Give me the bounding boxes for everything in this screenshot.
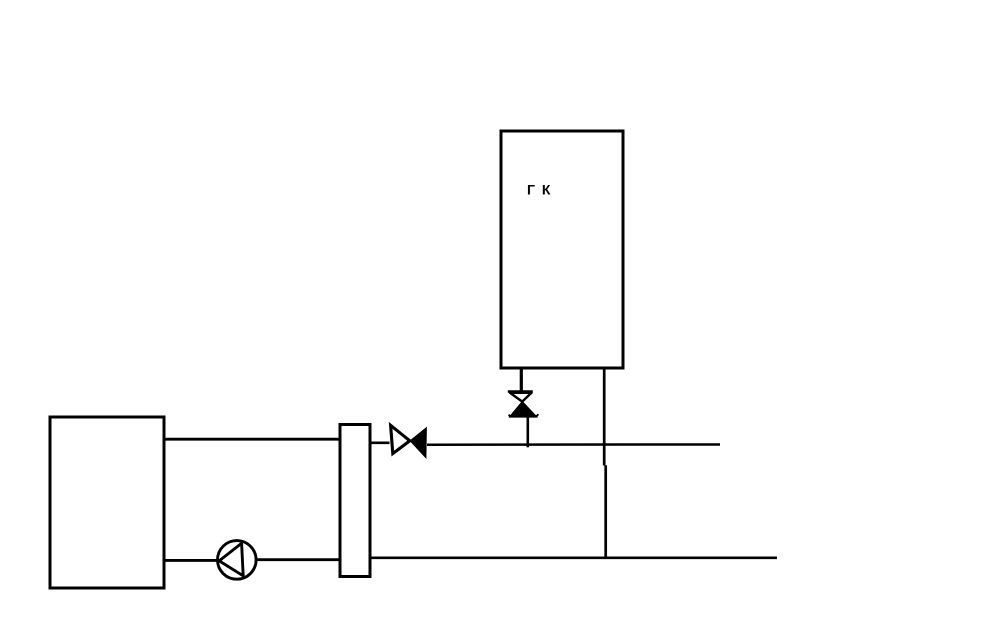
wire: stub from valve V2 down to upper pipe [526,416,529,447]
valve V2 filled triangle [510,402,536,416]
wire: upper pipe right section [427,443,720,446]
svg-text:Г К: Г К [527,182,552,198]
wire: bottom pipe from pump to separator [256,558,339,561]
check valve V1 filled triangle [410,428,426,458]
valve V2 bottom right tick [536,414,538,416]
wire: upper pipe left section [164,438,339,441]
wire: stub from boiler bottom to valve V2 [520,368,523,392]
wire: bottom pipe from left box to pump [164,559,219,562]
wire: vertical return from boiler (lower segment) [604,465,607,559]
boiler box ГК [501,131,623,368]
valve V2 open triangle [510,393,532,402]
wire: vertical return from boiler (upper segment) [603,368,606,466]
pump P1 circle [218,541,257,580]
valve V2 bottom bar [509,415,538,418]
wire: bottom pipe right section [371,556,777,559]
check valve V1 open triangle [391,425,410,453]
valve V2 bottom left tick [509,415,511,417]
valve V2 top bar [508,390,533,393]
pump P1 triangle [219,543,243,576]
left unit box [50,417,164,588]
wire: stub separator to check valve [371,441,390,444]
hydraulic separator [340,425,370,577]
